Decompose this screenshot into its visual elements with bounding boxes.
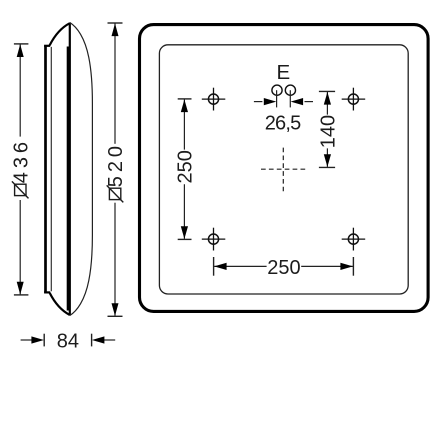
dim 250 bottom left arrow: [214, 263, 227, 270]
dim 26,5 right lead: [305, 101, 314, 103]
dim 84 left lead line: [21, 339, 32, 341]
center mark horizontal: [261, 168, 305, 170]
dim 250 left up arrow: [181, 100, 188, 113]
dim 250 left line: [183, 100, 185, 239]
dim 520 top tick: [108, 22, 123, 24]
mounting hole bottom-left: [202, 228, 226, 251]
flange top cap: [44, 45, 50, 47]
dim 26,5 left arrow: [264, 98, 277, 105]
dim 250 left bottom tick: [178, 238, 192, 240]
svg-text:26,5: 26,5: [265, 113, 301, 135]
plate right edge: [67, 47, 69, 311]
svg-text:436: 436: [10, 138, 32, 183]
E entry stem right: [289, 90, 291, 107]
dim 436 top arrow: [17, 44, 24, 57]
E entry circle right: [285, 85, 295, 95]
dim 140 top tick: [319, 90, 335, 92]
dim 140 bottom tick: [319, 166, 335, 168]
svg-text:140: 140: [317, 115, 339, 148]
mounting hole bottom-right: [342, 228, 366, 251]
dome top back arc: [50, 23, 70, 45]
svg-text:250: 250: [267, 257, 300, 279]
svg-text:E: E: [276, 61, 290, 84]
dim 250 left label: [174, 150, 196, 183]
dim 140 line: [326, 92, 328, 167]
dim 84 right lead line: [104, 339, 115, 341]
svg-text:84: 84: [57, 331, 79, 353]
dim 436 line lower: [19, 200, 21, 294]
center mark vertical: [282, 148, 284, 192]
dim 436 label: [10, 138, 32, 198]
mounting hole top-left: [202, 88, 226, 111]
dim 520 bottom arrow: [112, 303, 119, 316]
dim 436 top tick: [14, 43, 29, 45]
dim 520 bottom tick: [108, 315, 123, 317]
dim 250 bottom left tick: [213, 257, 215, 276]
dim 250 bottom line: [214, 265, 353, 267]
dim 84 left tick: [43, 334, 45, 347]
E entry stem left: [276, 90, 278, 107]
dim 250 bottom right tick: [352, 257, 354, 276]
dim 250 left top tick: [178, 98, 192, 100]
dim 140 up arrow: [324, 92, 331, 105]
outer housing: [140, 25, 429, 312]
dim 520 top arrow: [112, 23, 119, 36]
dim 140 down arrow: [324, 154, 331, 167]
dim 436 line upper: [19, 45, 21, 137]
dim 84 left arrow: [31, 336, 44, 343]
dome bottom back arc: [50, 293, 70, 315]
svg-text:250: 250: [174, 150, 196, 183]
dim 436 bottom tick: [14, 294, 29, 296]
dim 26,5 left lead: [254, 101, 263, 103]
flange bottom cap: [44, 291, 50, 293]
dim 520 line upper: [114, 24, 116, 144]
dim 520 line lower: [114, 203, 116, 316]
dim 436 bottom arrow: [17, 282, 24, 295]
dome front outline: [70, 23, 93, 316]
E entry circle left: [272, 85, 282, 95]
dim 520 label: [105, 142, 127, 202]
svg-text:520: 520: [105, 142, 127, 187]
dim 250 left down arrow: [181, 226, 188, 239]
dim 26,5 right arrow: [291, 98, 304, 105]
mounting hole top-right: [342, 88, 366, 111]
dim 250 bottom right arrow: [340, 263, 353, 270]
dim 84 right arrow: [92, 336, 105, 343]
flange left edge: [44, 45, 47, 293]
dome rim line: [69, 23, 71, 316]
inner panel: [159, 45, 408, 294]
dim 140 label: [317, 115, 339, 148]
flange inner face line: [50, 47, 52, 291]
dim 84 right tick: [91, 334, 93, 347]
